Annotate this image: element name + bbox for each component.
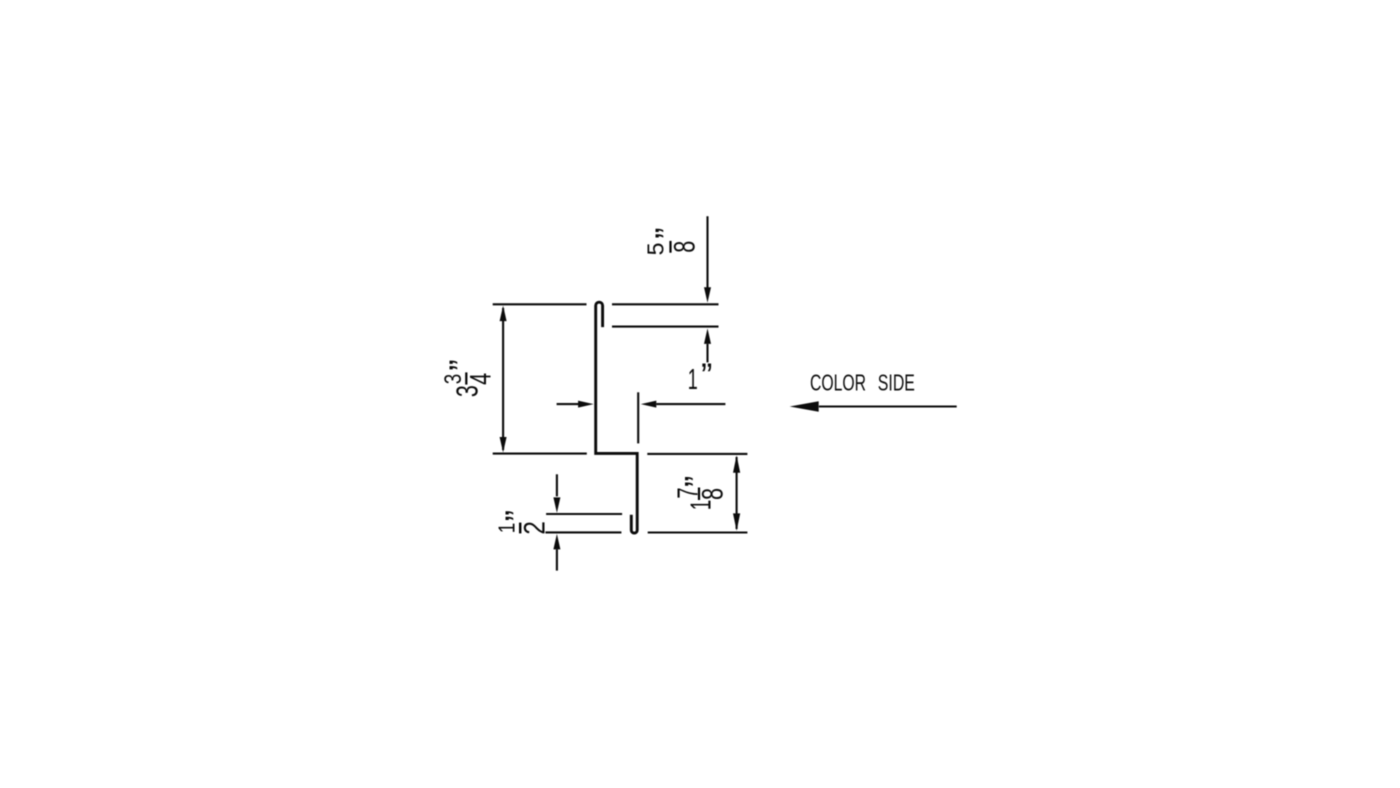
- profile outline (trim cross-section with top hem and bottom hook): [596, 302, 638, 533]
- dim 1 7/8 extension line top: [647, 453, 747, 455]
- dim 1 inch left arrow: [557, 403, 579, 405]
- svg-text:SIDE: SIDE: [878, 369, 915, 395]
- svg-text:”: ”: [701, 357, 712, 395]
- dim 5/8 extension line top: [612, 303, 719, 305]
- svg-text:8: 8: [696, 488, 729, 500]
- svg-text:1: 1: [493, 523, 519, 534]
- dim 3 3/4 dimension line with arrows: [502, 308, 504, 450]
- dim 3 3/4 extension line top: [493, 303, 587, 305]
- dim 1 7/8 dimension line with arrows: [736, 457, 738, 529]
- svg-text:”: ”: [499, 510, 537, 521]
- svg-text:4: 4: [465, 373, 498, 385]
- dim 5/8 extension line bottom: [612, 326, 719, 328]
- dim 5/8 up arrow: [704, 328, 711, 344]
- dim 1 inch right arrow: [641, 401, 657, 408]
- dim 5/8 down arrow: [706, 216, 708, 288]
- svg-text:COLOR: COLOR: [810, 369, 866, 395]
- dim 1/2 extension line bottom: [545, 531, 621, 533]
- svg-text:5: 5: [642, 242, 668, 255]
- dim 1 7/8 extension line bottom: [648, 531, 748, 533]
- dim 1/2 down arrow: [556, 474, 558, 496]
- svg-text:2: 2: [519, 521, 552, 535]
- dim text 5/8: [642, 228, 701, 256]
- dim 1/2 up arrow: [553, 534, 560, 550]
- dim text 1 7/8: [672, 476, 729, 510]
- svg-text:3: 3: [449, 385, 484, 397]
- dim 1/2 extension line top: [546, 513, 622, 515]
- dim text 3 3/4: [440, 359, 497, 397]
- svg-text:1: 1: [686, 500, 718, 511]
- dim 3 3/4 extension line bottom: [493, 453, 587, 455]
- svg-text:8: 8: [669, 241, 702, 253]
- svg-text:3: 3: [440, 374, 467, 385]
- color side leader arrow: [819, 405, 957, 407]
- svg-text:”: ”: [649, 228, 687, 239]
- dim 1 inch extension line: [637, 392, 639, 443]
- svg-text:”: ”: [443, 359, 481, 370]
- dim text 1/2: [493, 510, 551, 535]
- svg-text:1: 1: [688, 364, 698, 396]
- svg-text:”: ”: [678, 476, 716, 487]
